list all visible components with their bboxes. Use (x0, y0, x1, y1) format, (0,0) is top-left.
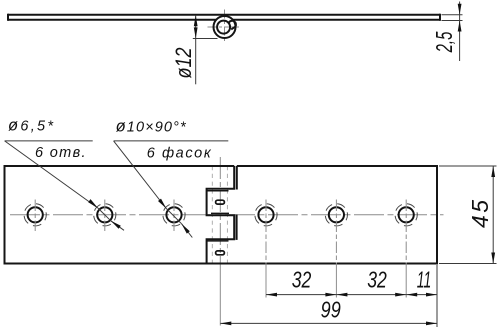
45 arrow up (491, 166, 495, 177)
2,5 lower extension line (442, 20, 463, 22)
ø12 extension line under knuckle (193, 38, 218, 40)
hole 3 chamfer circle (163, 204, 185, 226)
right leaf top edge (237, 165, 437, 167)
ø12 arrow up (194, 15, 198, 26)
svg-text:11: 11 (417, 266, 432, 292)
hole 4 (258, 207, 273, 222)
dimension line 99 (220, 322, 437, 324)
leaf plate bottom surface line (left leaf) (8, 19, 216, 21)
svg-text:6 отв.: 6 отв. (35, 145, 86, 161)
leader callout ø6,5 (5, 141, 124, 230)
45 upper extension line (439, 165, 497, 167)
hole 3 (166, 207, 181, 222)
diametral line through hole 2 (98, 208, 111, 221)
leader callout ø10x90 (114, 141, 229, 238)
hole 2 (97, 207, 112, 222)
hole 6 vertical centerline extended to dimension (405, 200, 407, 266)
leader shelf 2 (114, 140, 229, 142)
curl gap slot lower (216, 251, 225, 255)
arrow left at 220 (220, 322, 231, 326)
plate left end cap (7, 14, 9, 21)
svg-text:ø10×90°*: ø10×90°* (116, 117, 187, 135)
2,5 arrow down (from above) (458, 4, 462, 15)
45 arrow down (491, 253, 495, 264)
leaf plate bottom surface line (right leaf) (233, 19, 440, 21)
leader line 1 to hole 2 (5, 141, 98, 208)
arrow on hole 3 upper-left (158, 199, 166, 209)
curl end hook (229, 21, 236, 30)
svg-text:ø12: ø12 (171, 48, 196, 79)
arrow left at 266 (266, 293, 277, 297)
bottom edge both leaves (5, 263, 438, 265)
doubled step line 1 (207, 190, 229, 192)
pin axis extension to 99 dimension (219, 266, 221, 326)
diametral line through hole 3 (166, 209, 181, 224)
hole 4 vertical centerline extended to dimension (265, 200, 267, 266)
doubled step line 3 (207, 240, 229, 242)
hole 2 chamfer circle (94, 204, 116, 226)
dimension chain 32 32 11 (266, 265, 437, 327)
right edge extension line (436, 265, 438, 327)
right leaf knuckle edge (band 1) (236, 166, 238, 190)
45 dimension line (492, 166, 494, 264)
ø12 arrow down (194, 27, 198, 38)
leaf plate top surface line (8, 14, 440, 16)
hole 6 (399, 207, 414, 222)
knuckle pin hole inner circle (217, 21, 230, 34)
svg-text:6 фасок: 6 фасок (147, 146, 212, 162)
2,5 arrow up (from below) (458, 21, 462, 32)
hole 1 vertical centerline (34, 200, 36, 232)
hidden line of curl (right) (226, 166, 228, 264)
hole 1 chamfer circle (24, 204, 46, 226)
hole 2 vertical centerline (104, 200, 106, 232)
dimension 99 (220, 322, 437, 326)
curl gap slot upper (216, 200, 225, 204)
tail beyond hole 2 (111, 221, 124, 231)
svg-text:99: 99 (321, 297, 341, 323)
arrows at 406 (395, 293, 406, 297)
dimension line 32/32/11 (266, 294, 437, 296)
arrows at 336 (325, 293, 336, 297)
tail beyond hole 3 (182, 224, 193, 238)
right leaf knuckle edge (band 3) (236, 215, 238, 240)
svg-text:32: 32 (367, 266, 387, 292)
arrow on hole 2 lower-right (111, 221, 121, 229)
dimension ø12 (193, 15, 218, 84)
hinge pin centerline (front view) (219, 157, 221, 266)
hidden line of curl (left) (211, 166, 213, 264)
knuckle outer curl circle (214, 16, 236, 38)
hole 5 chamfer circle (325, 204, 347, 226)
svg-text:32: 32 (292, 266, 312, 292)
arrow on hole 2 upper-left (88, 199, 98, 208)
hinge axis centerline (horizontal, top view) (208, 26, 242, 28)
2,5 upper extension line (442, 14, 463, 16)
svg-text:2,5: 2,5 (431, 32, 457, 53)
left leaf left end edge (4, 165, 6, 265)
hole 6 chamfer circle (395, 204, 417, 226)
hole 4 chamfer circle (255, 204, 277, 226)
holes horizontal centerline (10, 214, 444, 216)
dimension 45 (439, 166, 497, 264)
right leaf right end edge (436, 165, 438, 265)
arrow right at 437 (426, 293, 437, 297)
plate right end cap (439, 14, 441, 21)
holes (24, 200, 417, 298)
hole 3 vertical centerline (173, 200, 175, 232)
leader line 2 to hole 3 (114, 141, 167, 209)
45 lower extension line (439, 263, 497, 265)
arrow right at 437 (426, 322, 437, 326)
doubled step line 2 (211, 212, 229, 214)
hinge axis centerline (vertical, top view) (224, 10, 226, 44)
dimension 2,5 (442, 2, 463, 62)
ø12 dimension line (195, 15, 197, 84)
leader shelf 1 (5, 140, 93, 142)
left leaf top edge (5, 165, 235, 167)
hole 5 vertical centerline extended to dimension (335, 200, 337, 266)
castellated joint edge of left leaf (207, 166, 235, 264)
hole 5 (329, 207, 344, 222)
arrow on hole 3 lower-right (182, 224, 190, 234)
svg-text:ø6,5*: ø6,5* (8, 117, 54, 135)
hole 1 (28, 207, 43, 222)
2,5 dimension line (459, 2, 461, 62)
